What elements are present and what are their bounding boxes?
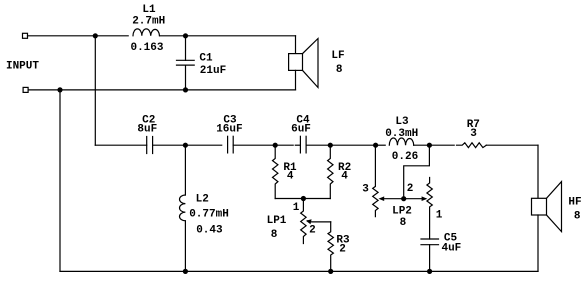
capacitor C4 [295,136,306,153]
svg-text:LP2: LP2 [392,205,412,217]
wire before L3 [376,144,386,146]
svg-text:8: 8 [400,217,407,229]
svg-text:C1: C1 [199,52,213,64]
svg-text:0.77mH: 0.77mH [189,209,229,221]
potentiometer LP2 left half [373,145,378,217]
wire HF bottom [537,215,539,271]
svg-text:LP1: LP1 [267,215,287,227]
svg-text:3: 3 [362,183,369,195]
svg-text:4uF: 4uF [441,243,461,255]
svg-text:8: 8 [336,64,343,76]
resistor R1 [273,145,278,198]
wire top input [28,35,129,37]
LP1 wiper arrow [306,219,331,224]
capacitor C1 [177,36,195,90]
inductor L3 [389,138,413,145]
resistor R3 [328,222,333,272]
node junction LP2 pin3 [373,143,378,148]
node junction top-left [93,33,98,38]
input terminal top [23,33,28,38]
capacitor C2 [147,137,153,154]
node junction R3 bottom [328,269,333,274]
svg-text:8uF: 8uF [137,124,157,136]
svg-text:0.3mH: 0.3mH [385,128,418,140]
capacitor C5 [421,239,439,271]
svg-text:2.7mH: 2.7mH [132,16,165,28]
wire branch left [95,144,146,146]
svg-text:1: 1 [293,202,300,214]
input terminal bottom [23,87,28,92]
wire R7 to HF [486,144,538,146]
wire LF bottom [295,70,297,90]
wire top to speaker [160,35,296,37]
node junction C5 bottom [427,269,432,274]
svg-text:21uF: 21uF [200,65,226,77]
node junction LP2 wiper [401,196,406,201]
resistor R2 [328,145,333,198]
node junction C3-C4 [273,143,278,148]
svg-text:0.163: 0.163 [130,42,163,54]
svg-text:L3: L3 [395,116,409,128]
svg-text:4: 4 [287,170,294,182]
node junction C4-R2 [328,143,333,148]
node junction C1 bottom [183,87,188,92]
svg-text:0.43: 0.43 [196,224,223,236]
wire bottom rail [60,270,538,272]
wire L3 to R7 [414,144,455,146]
node junction C2-C3 [183,143,188,148]
node junction bottom ground [57,87,62,92]
svg-text:1: 1 [436,210,443,222]
svg-text:4: 4 [341,170,348,182]
node junction LP1 pin1 [301,196,306,201]
node junction L2 bottom [183,269,188,274]
svg-text:8: 8 [574,211,581,223]
svg-text:0.26: 0.26 [392,151,418,163]
wire ground drop [59,90,61,272]
wire input link down [94,36,96,145]
speaker LF [289,39,318,88]
potentiometer LP2 right half [427,178,432,240]
resistor R7 [457,143,487,148]
wire LP2 wiper to L3 right node [404,145,430,199]
svg-text:2: 2 [309,225,316,237]
svg-text:2: 2 [339,244,346,256]
inductor L2 [180,145,186,271]
svg-text:16uF: 16uF [216,124,242,136]
inductor L1 [133,29,160,36]
wire HF drop [537,145,539,198]
svg-text:LF: LF [331,50,344,62]
wire bottom input [28,89,295,91]
node junction L3 right [427,143,432,148]
node junction L1-C1 [183,33,188,38]
capacitor C3 [228,136,234,153]
svg-text:L1: L1 [142,4,156,16]
svg-text:6uF: 6uF [291,124,311,136]
svg-text:3: 3 [470,128,477,140]
svg-text:8: 8 [271,229,278,241]
svg-text:2: 2 [407,183,414,195]
svg-text:HF: HF [568,197,581,209]
wire LF drop [295,36,297,54]
wire C2 to C3 [153,144,222,146]
speaker HF [532,182,562,232]
wire C4 to L3 [306,144,376,146]
svg-text:L2: L2 [196,194,209,206]
wire C3 to C4 [233,144,293,146]
wire R1-R2 bottoms [275,198,330,200]
potentiometer LP1 [301,199,306,244]
LP2 wiper bar [379,196,428,201]
svg-text:INPUT: INPUT [6,60,39,72]
